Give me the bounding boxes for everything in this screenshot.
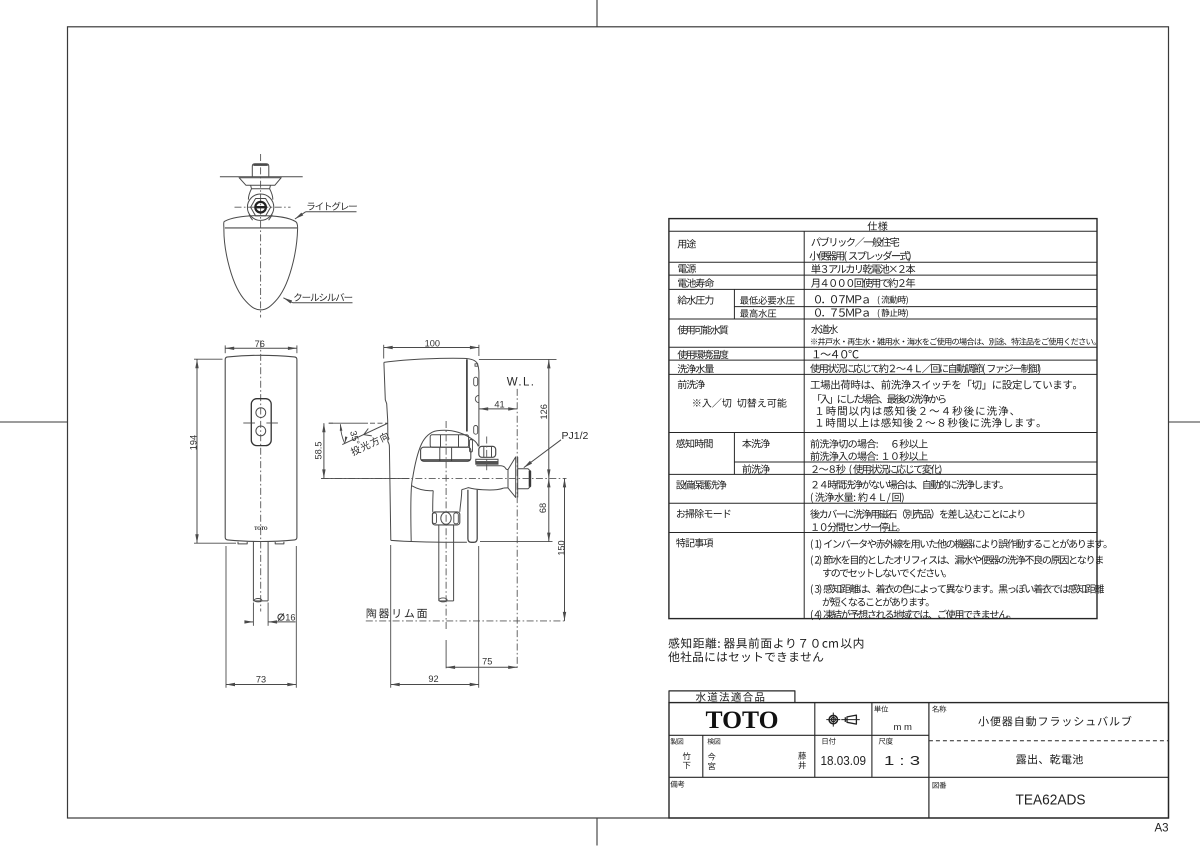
table row: youto (application) bbox=[678, 239, 696, 248]
table row: setsubi hogo senjou (protective flush) bbox=[676, 480, 726, 489]
side view: cover top edge and right corner bbox=[384, 358, 479, 372]
dimension 68 bbox=[480, 478, 553, 541]
svg-text:92: 92 bbox=[428, 674, 438, 684]
title block: drafter/checker labels bbox=[671, 738, 893, 745]
svg-text:18.03.09: 18.03.09 bbox=[821, 753, 867, 768]
svg-text:TEA62ADS: TEA62ADS bbox=[1016, 793, 1086, 809]
dimension 126 bbox=[479, 359, 557, 478]
table row: denchi jumyou (battery life) bbox=[678, 278, 714, 287]
top view: slotted screw bbox=[255, 202, 266, 213]
note: not compatible with other brands bbox=[668, 651, 823, 662]
svg-text:194: 194 bbox=[189, 435, 199, 450]
dimension 75 bbox=[446, 640, 517, 669]
title block: third angle projection symbol bbox=[826, 713, 860, 727]
dimension 58.5 (sensor height) bbox=[313, 423, 409, 478]
side view: valve flange nut bbox=[421, 447, 471, 461]
top view: horizontal centerline through ball joint bbox=[235, 206, 291, 208]
table row: kanchi jikan (sensing time) bbox=[676, 439, 712, 448]
side view: mounting plate right edge bbox=[478, 373, 480, 447]
top view: mounting flange bbox=[239, 178, 281, 186]
svg-text:126: 126 bbox=[539, 404, 549, 419]
svg-text:TOTO: TOTO bbox=[706, 705, 779, 734]
side view: valve body lower contour bbox=[412, 486, 504, 491]
side view: coupling nut bbox=[432, 512, 459, 525]
svg-text:35°: 35° bbox=[348, 430, 361, 446]
top view: ball joint circle bbox=[247, 194, 273, 220]
front view: sensor lower lens bbox=[256, 426, 266, 436]
svg-text:73: 73 bbox=[256, 674, 266, 684]
dimension 92 bbox=[391, 545, 479, 688]
table row: kyuusui atsuryoku (water pressure) bbox=[678, 295, 714, 304]
svg-text:75: 75 bbox=[482, 656, 492, 666]
dimension 73 (front bottom width) bbox=[226, 546, 296, 688]
front view: sensor upper lens bbox=[256, 408, 266, 418]
side view: valve to outlet step bbox=[476, 466, 508, 470]
side view: stop valve hex bbox=[479, 446, 496, 457]
title block: checker name Fujii (vertical) bbox=[798, 752, 806, 769]
specification table bbox=[669, 219, 1097, 619]
title block: finish/battery type bbox=[1016, 754, 1083, 764]
side view: outlet horizontal centerline bbox=[322, 477, 567, 479]
side view: valve outlet neck bbox=[433, 490, 462, 512]
sensor beam reference line bbox=[329, 422, 388, 424]
title block: drafter name Takeshita (vertical) bbox=[683, 752, 691, 769]
top view: sensor body (egg shape) bbox=[224, 216, 298, 310]
svg-text:PJ1/2: PJ1/2 bbox=[562, 430, 589, 442]
label PJ1/2 with leader bbox=[524, 430, 589, 468]
top view: wall surface line bbox=[220, 176, 303, 178]
table row: mae senjou (pre-flush) bbox=[678, 380, 705, 389]
note: sensing distance bbox=[668, 638, 863, 649]
svg-text:W.L.: W.L. bbox=[507, 376, 536, 388]
front view: supply pipe bbox=[253, 542, 268, 602]
side view: cover back edge (dark) bbox=[466, 359, 468, 431]
svg-text:41: 41 bbox=[494, 399, 504, 409]
front view: bottom clamp tabs bbox=[238, 542, 284, 544]
sensor beam direction line bbox=[342, 423, 388, 444]
svg-text:68: 68 bbox=[538, 503, 548, 513]
side view: flush valve dome silhouette bbox=[411, 430, 479, 541]
side view: outlet pipe to wall bbox=[504, 487, 508, 489]
frame centering tick left bbox=[0, 421, 68, 423]
svg-text:76: 76 bbox=[255, 339, 265, 349]
table row: tokki jikou (special notes) bbox=[676, 538, 713, 547]
table row: kankyou ondo (ambient temperature) bbox=[678, 350, 729, 359]
side view: plate top square hole bbox=[475, 364, 478, 366]
side view: wall escutcheon bell bbox=[508, 457, 516, 498]
table header: shiyou (specification) bbox=[868, 221, 888, 230]
frame centering tick bottom bbox=[596, 818, 598, 846]
table row: osouji mode (cleaning mode) bbox=[677, 509, 731, 518]
top view: flange neck bbox=[251, 185, 271, 188]
dimension 100 (side width) bbox=[384, 339, 479, 359]
title block: remarks label bbox=[670, 781, 684, 788]
svg-text:TOTO: TOTO bbox=[254, 526, 268, 532]
dimension 76 (front width) bbox=[225, 339, 297, 353]
side view: stop valve flange plates bbox=[476, 459, 498, 464]
top view: swivel arm outline bbox=[248, 189, 272, 221]
top view: ball hexagon bbox=[251, 199, 271, 216]
table row: senjou suiryou (flush volume) bbox=[678, 364, 714, 373]
title block: unit cell bbox=[874, 706, 912, 733]
sensor beam arrowhead (open) bbox=[364, 429, 372, 436]
dimension 194 (front height) bbox=[189, 359, 237, 543]
title block: outer box and grid bbox=[669, 703, 1169, 818]
side view: plate slot behind valve bbox=[470, 440, 473, 453]
front view: sensor window bbox=[251, 399, 271, 446]
side view: mounting plate lower part bbox=[468, 490, 477, 543]
label: light gray (raito guree) bbox=[295, 202, 357, 219]
svg-text:100: 100 bbox=[425, 339, 440, 349]
title block: name cell bbox=[932, 706, 1131, 727]
frame centering tick top bbox=[596, 0, 598, 27]
title block: checker name Imamiya (vertical) bbox=[708, 753, 716, 770]
title block: drawing number label bbox=[933, 782, 947, 789]
side view: PJ1/2 thread stub bbox=[518, 469, 531, 489]
svg-text:m m: m m bbox=[894, 722, 913, 733]
top view: body seam line bbox=[225, 227, 297, 229]
side view: valve hex cap bbox=[430, 435, 468, 447]
table row: dengen (power) bbox=[678, 264, 696, 273]
side view: outlet down pipe bbox=[439, 525, 454, 602]
top view: vertical centerline bbox=[260, 154, 262, 318]
frame centering tick right bbox=[1169, 421, 1200, 423]
side view: plate oval slot lower bbox=[474, 426, 478, 435]
svg-text:1 : 3: 1 : 3 bbox=[884, 753, 920, 768]
side view: pipe centerline bbox=[445, 421, 447, 631]
svg-text:16: 16 bbox=[285, 612, 295, 622]
label: cool silver (kuuru shirubaa) bbox=[283, 293, 352, 303]
title block: water law compliance tab bbox=[669, 691, 795, 703]
dimension 150 bbox=[557, 478, 567, 621]
beam angle arc 35deg bbox=[340, 424, 362, 446]
ceramic rim surface line (touki rimu men) bbox=[366, 608, 567, 621]
label: beam direction (tokou houkou) bbox=[350, 431, 390, 456]
side view: cover bottom edge bbox=[391, 540, 467, 542]
front view: vertical centerline bbox=[260, 341, 262, 612]
front view: sensor crosshair ticks bbox=[243, 422, 255, 424]
table row: shiyou kanou suishitsu (usable water) bbox=[678, 325, 729, 334]
side view: plate semicircular notch bbox=[475, 395, 479, 402]
side view: plate oval slot upper bbox=[474, 377, 478, 386]
dimension 41 bbox=[479, 399, 517, 410]
svg-text:58.5: 58.5 bbox=[313, 442, 323, 460]
svg-text:150: 150 bbox=[557, 540, 567, 555]
side view: cover left edge with step bbox=[384, 362, 391, 540]
side view: stop valve centerline bbox=[486, 437, 488, 473]
dimension phi16 (pipe diameter) bbox=[244, 603, 295, 626]
W.L. label and line bbox=[507, 376, 536, 668]
front view: body outline bbox=[225, 355, 297, 541]
top view: mounting bolt bbox=[252, 164, 268, 177]
svg-text:A3: A3 bbox=[1155, 823, 1169, 835]
